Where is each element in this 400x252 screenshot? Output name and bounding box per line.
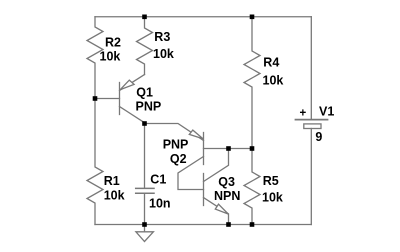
svg-text:+: +: [300, 108, 307, 120]
svg-text:R1: R1: [104, 174, 120, 188]
svg-text:10k: 10k: [104, 189, 125, 203]
svg-text:10k: 10k: [262, 191, 283, 205]
svg-text:10n: 10n: [149, 197, 171, 211]
svg-text:R3: R3: [154, 30, 170, 44]
svg-text:R5: R5: [263, 174, 279, 188]
svg-text:10k: 10k: [153, 47, 174, 61]
svg-text:Q2: Q2: [170, 152, 187, 166]
svg-text:Q1: Q1: [136, 85, 153, 99]
svg-text:10k: 10k: [263, 74, 284, 88]
svg-text:C1: C1: [150, 172, 166, 186]
svg-text:PNP: PNP: [136, 99, 162, 113]
svg-text:R4: R4: [263, 55, 279, 69]
svg-text:R2: R2: [105, 36, 121, 50]
svg-text:PNP: PNP: [163, 138, 189, 152]
svg-text:Q3: Q3: [218, 175, 235, 189]
svg-text:V1: V1: [319, 104, 334, 118]
svg-text:10k: 10k: [100, 50, 121, 64]
svg-text:NPN: NPN: [214, 189, 240, 203]
svg-text:9: 9: [315, 130, 322, 144]
